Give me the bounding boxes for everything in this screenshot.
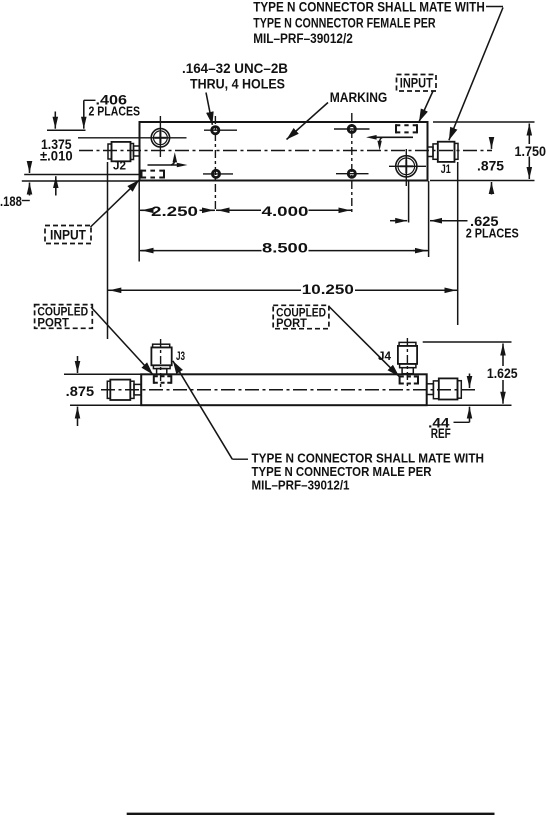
svg-text:2 PLACES: 2 PLACES (89, 105, 141, 119)
svg-text:TYPE N CONNECTOR SHALL MATE WI: TYPE N CONNECTOR SHALL MATE WITH (253, 0, 485, 15)
svg-text:PORT: PORT (276, 318, 307, 330)
svg-text:REF: REF (431, 426, 451, 441)
svg-text:.188: .188 (0, 194, 22, 209)
svg-text:MARKING: MARKING (330, 90, 388, 105)
svg-text:PORT: PORT (37, 318, 69, 330)
svg-text:THRU, 4 HOLES: THRU, 4 HOLES (190, 77, 285, 92)
svg-text:±.010: ±.010 (40, 148, 73, 163)
svg-text:J2: J2 (113, 161, 126, 173)
svg-text:MIL–PRF–39012/2: MIL–PRF–39012/2 (253, 31, 353, 46)
svg-text:.164–32 UNC–2B: .164–32 UNC–2B (182, 61, 288, 76)
svg-text:J3: J3 (176, 351, 185, 363)
svg-text:2 PLACES: 2 PLACES (466, 227, 519, 241)
svg-text:4.000: 4.000 (262, 204, 309, 219)
svg-text:.875: .875 (477, 158, 504, 173)
svg-text:10.250: 10.250 (302, 282, 354, 297)
svg-text:1.750: 1.750 (515, 144, 546, 159)
svg-text:MIL–PRF–39012/1: MIL–PRF–39012/1 (252, 478, 350, 493)
svg-text:J4: J4 (378, 351, 392, 363)
svg-text:1.625: 1.625 (487, 366, 518, 381)
svg-text:.875: .875 (66, 384, 95, 399)
svg-text:J1: J1 (441, 164, 451, 176)
svg-text:INPUT: INPUT (400, 76, 434, 91)
svg-text:8.500: 8.500 (262, 241, 308, 256)
svg-text:2.250: 2.250 (151, 204, 198, 219)
svg-text:INPUT: INPUT (50, 228, 87, 243)
svg-text:TYPE N CONNECTOR FEMALE PER: TYPE N CONNECTOR FEMALE PER (253, 16, 436, 31)
